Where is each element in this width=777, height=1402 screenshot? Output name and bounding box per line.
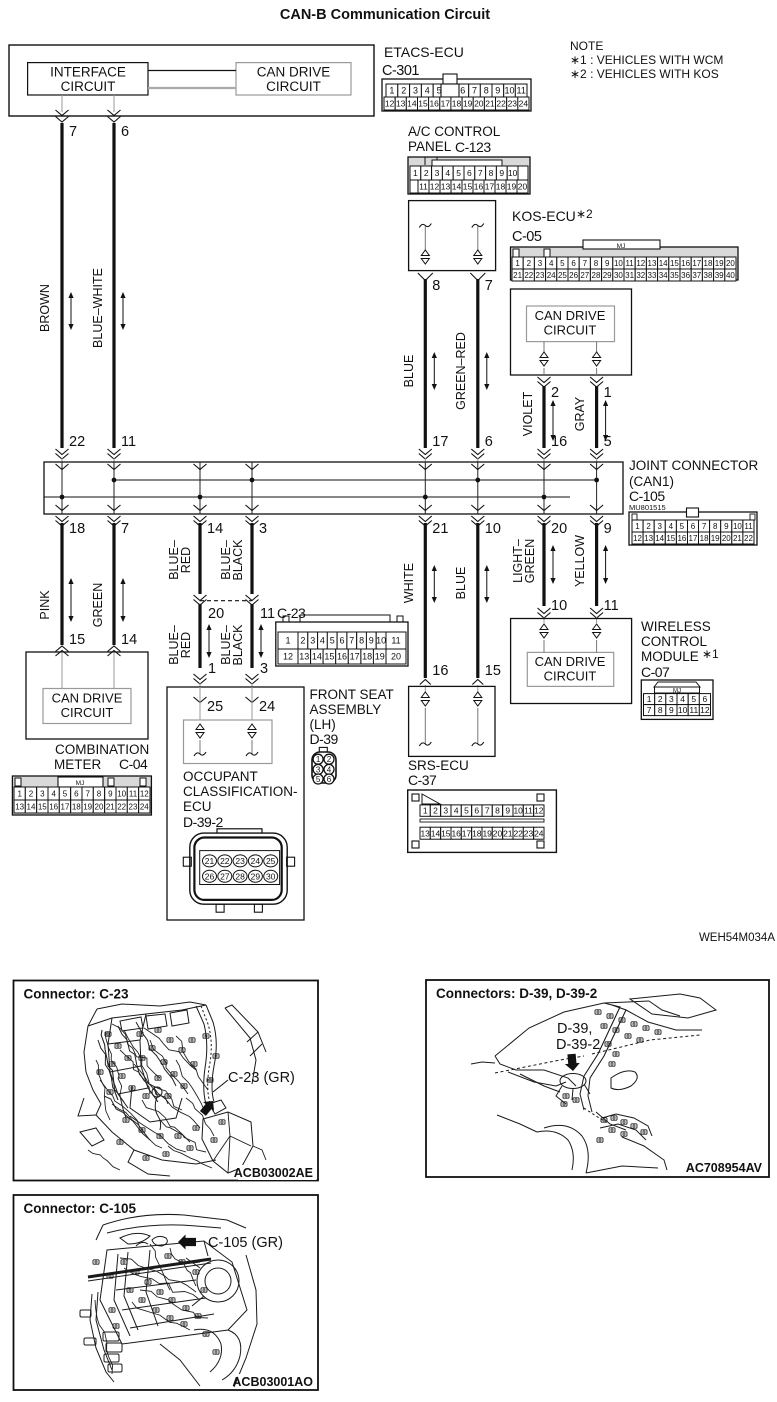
svg-text:8: 8 [359, 636, 364, 646]
svg-text:6: 6 [74, 789, 79, 798]
svg-text:3: 3 [657, 522, 662, 531]
svg-text:(LH): (LH) [310, 717, 336, 732]
connector D-39 [319, 747, 327, 752]
wire BROWN pin 7 to joint connector pin 22 [61, 95, 63, 112]
svg-text:BLUE: BLUE [454, 567, 468, 600]
svg-text:8: 8 [658, 705, 663, 715]
svg-text:C-105 (GR): C-105 (GR) [208, 1235, 283, 1251]
joint connector (CAN1) C-105 box [44, 462, 623, 514]
svg-text:1: 1 [413, 168, 418, 178]
svg-text:6: 6 [121, 124, 129, 140]
svg-text:22: 22 [524, 271, 533, 280]
svg-text:C-23: C-23 [277, 605, 306, 621]
svg-text:13: 13 [396, 99, 406, 109]
terminator in occupant ECU box at x=252 [248, 724, 256, 730]
D-39 pin 5 [313, 774, 323, 784]
joint connector internal wire at x=252 [251, 462, 253, 480]
svg-text:RED: RED [179, 632, 193, 658]
SRS-ECU block [409, 686, 495, 756]
svg-text:2: 2 [424, 168, 429, 178]
svg-text:20: 20 [722, 534, 731, 543]
svg-text:17: 17 [432, 434, 448, 450]
svg-text:16: 16 [49, 802, 58, 811]
svg-text:13: 13 [648, 259, 657, 268]
svg-text:7: 7 [472, 86, 477, 96]
svg-text:METER: METER [54, 757, 102, 772]
pin 27 circle [218, 870, 232, 882]
svg-text:26: 26 [205, 872, 215, 882]
svg-text:∗1: ∗1 [702, 647, 719, 661]
svg-text:5: 5 [691, 694, 696, 704]
svg-text:12: 12 [140, 789, 149, 798]
svg-text:23: 23 [129, 802, 138, 811]
svg-text:20: 20 [726, 259, 735, 268]
svg-text:14: 14 [431, 828, 441, 838]
svg-text:RED: RED [179, 547, 193, 573]
svg-text:ETACS-ECU: ETACS-ECU [384, 44, 464, 60]
svg-text:23: 23 [524, 828, 534, 838]
svg-text:24: 24 [259, 699, 275, 715]
svg-text:17: 17 [692, 259, 701, 268]
svg-text:KOS-ECU: KOS-ECU [512, 208, 576, 224]
svg-text:3: 3 [310, 636, 315, 646]
svg-text:18: 18 [452, 99, 462, 109]
svg-text:11: 11 [129, 789, 138, 798]
svg-text:20: 20 [208, 606, 224, 622]
pin 24 circle [248, 855, 262, 867]
D-39 pin 6 [324, 774, 334, 784]
svg-text:36: 36 [681, 271, 690, 280]
svg-text:2: 2 [327, 755, 332, 764]
svg-text:11: 11 [625, 259, 634, 268]
svg-text:11: 11 [260, 606, 275, 622]
pin 25 circle [264, 855, 278, 867]
svg-text:22: 22 [220, 856, 230, 866]
pin 23 circle [233, 855, 247, 867]
svg-text:BLACK: BLACK [231, 539, 245, 581]
svg-text:3: 3 [40, 789, 45, 798]
pin 29 circle [248, 870, 262, 882]
svg-text:1: 1 [423, 806, 428, 816]
svg-text:16: 16 [451, 828, 461, 838]
svg-text:16: 16 [432, 663, 448, 679]
connector C-23 [276, 622, 408, 666]
svg-text:24: 24 [547, 271, 556, 280]
svg-text:CONTROL: CONTROL [641, 634, 707, 649]
svg-text:15: 15 [463, 182, 473, 192]
svg-text:5: 5 [680, 522, 685, 531]
svg-text:22: 22 [513, 828, 523, 838]
wire VIOLET pin 2 to joint connector pin 16 [538, 377, 551, 383]
svg-text:∗2: ∗2 [576, 207, 593, 221]
svg-text:14: 14 [452, 182, 462, 192]
svg-text:39: 39 [715, 271, 724, 280]
svg-text:15: 15 [666, 534, 675, 543]
svg-text:11: 11 [121, 434, 136, 450]
svg-text:15: 15 [69, 632, 85, 648]
svg-text:∗2 : VEHICLES WITH KOS: ∗2 : VEHICLES WITH KOS [570, 67, 719, 81]
svg-text:22: 22 [69, 434, 85, 450]
terminator in WCM at x=544 [540, 624, 548, 630]
svg-text:22: 22 [744, 534, 753, 543]
svg-text:32: 32 [636, 271, 645, 280]
svg-text:4: 4 [669, 522, 674, 531]
svg-text:14: 14 [27, 802, 36, 811]
svg-text:Connector: C-105: Connector: C-105 [24, 1201, 137, 1216]
svg-text:13: 13 [420, 828, 430, 838]
CAN bus lower line [44, 496, 570, 498]
svg-text:(CAN1): (CAN1) [629, 474, 674, 489]
svg-text:21: 21 [205, 856, 215, 866]
svg-text:7: 7 [647, 705, 652, 715]
svg-text:18: 18 [700, 534, 709, 543]
svg-text:14: 14 [207, 521, 223, 537]
svg-text:JOINT CONNECTOR: JOINT CONNECTOR [629, 458, 759, 473]
svg-text:7: 7 [485, 278, 493, 294]
svg-text:17: 17 [61, 802, 70, 811]
svg-text:16: 16 [429, 99, 439, 109]
svg-text:5: 5 [456, 168, 461, 178]
svg-text:22: 22 [117, 802, 126, 811]
svg-text:38: 38 [704, 271, 713, 280]
terminator in WCM at x=596.6 [593, 624, 601, 630]
svg-text:10: 10 [508, 168, 518, 178]
svg-text:4: 4 [425, 86, 430, 96]
svg-text:3: 3 [413, 86, 418, 96]
svg-text:6: 6 [339, 636, 344, 646]
svg-text:6: 6 [467, 168, 472, 178]
wire BLUE&#8211;RED joint connector pin 14 via C-23 [194, 516, 207, 522]
svg-text:3: 3 [669, 694, 674, 704]
svg-text:30: 30 [614, 271, 623, 280]
svg-text:18: 18 [69, 521, 85, 537]
svg-text:11: 11 [517, 86, 526, 96]
svg-text:CLASSIFICATION-: CLASSIFICATION- [183, 784, 298, 799]
svg-text:40: 40 [726, 271, 735, 280]
terminator triangles below CAN DRIVE at x=596.6 [596, 342, 598, 352]
svg-text:12: 12 [633, 534, 642, 543]
svg-text:ECU: ECU [183, 799, 212, 814]
svg-text:1: 1 [647, 694, 652, 704]
svg-text:10: 10 [551, 598, 567, 614]
svg-text:8: 8 [594, 259, 599, 268]
svg-text:18: 18 [472, 828, 482, 838]
wire GREEN joint connector pin 7 to combination meter pin 14 [108, 516, 121, 522]
svg-text:Connectors: D-39, D-39-2: Connectors: D-39, D-39-2 [436, 986, 597, 1001]
svg-text:26: 26 [569, 271, 578, 280]
terminator in occupant ECU box at x=200 [196, 724, 204, 730]
svg-text:10: 10 [504, 86, 514, 96]
svg-text:14: 14 [121, 632, 137, 648]
svg-text:D-39: D-39 [310, 731, 339, 747]
connector C-23 target blob [209, 1100, 226, 1114]
wire LIGHT&#8211;GREEN joint connector pin 20 to wireless control module pin 10 [538, 516, 551, 522]
svg-text:1: 1 [285, 636, 290, 646]
D-39 pin 2 [324, 754, 334, 764]
svg-text:2: 2 [401, 86, 406, 96]
svg-text:15: 15 [441, 828, 451, 838]
svg-text:WIRELESS: WIRELESS [641, 619, 711, 634]
svg-text:3: 3 [435, 168, 440, 178]
terminator in SRS-ECU at x=477.8 [474, 692, 482, 698]
svg-text:5: 5 [560, 259, 565, 268]
svg-text:15: 15 [485, 663, 501, 679]
svg-text:1: 1 [389, 86, 394, 96]
svg-text:21: 21 [513, 271, 522, 280]
svg-text:21: 21 [432, 521, 448, 537]
svg-text:27: 27 [220, 872, 230, 882]
svg-text:16: 16 [474, 182, 484, 192]
svg-text:CIRCUIT: CIRCUIT [61, 79, 116, 94]
svg-text:11: 11 [524, 806, 533, 816]
svg-text:4: 4 [327, 765, 332, 774]
photo box: Connector C-105 [14, 1195, 319, 1390]
connector C-301 [382, 79, 531, 111]
illustration: car body upper side [495, 1001, 649, 1056]
svg-text:SRS-ECU: SRS-ECU [408, 758, 469, 773]
wire BLUE pin 8 to joint connector pin 17 [418, 273, 433, 281]
svg-text:CIRCUIT: CIRCUIT [61, 705, 114, 720]
svg-text:BLUE–WHITE: BLUE–WHITE [91, 268, 105, 348]
joint connector internal wire at x=200 [199, 462, 201, 497]
svg-text:11: 11 [604, 598, 619, 614]
svg-text:19: 19 [463, 99, 473, 109]
D-39 pin 3 [313, 764, 323, 774]
svg-text:D-39,: D-39, [557, 1021, 592, 1037]
svg-text:3: 3 [316, 765, 321, 774]
svg-text:14: 14 [659, 259, 668, 268]
wire: interface to can drive (lower, gray) [148, 87, 236, 89]
svg-text:6: 6 [327, 775, 332, 784]
svg-text:4: 4 [680, 694, 685, 704]
svg-text:INTERFACE: INTERFACE [50, 65, 126, 80]
svg-text:17: 17 [441, 99, 451, 109]
svg-text:A/C CONTROL: A/C CONTROL [408, 124, 501, 139]
svg-text:13: 13 [644, 534, 653, 543]
photo box: Connectors D-39, D-39-2 [426, 980, 769, 1177]
svg-text:7: 7 [478, 168, 483, 178]
svg-text:MU801515: MU801515 [629, 503, 666, 512]
svg-text:12: 12 [430, 182, 440, 192]
svg-text:19: 19 [507, 182, 517, 192]
svg-text:6: 6 [691, 522, 696, 531]
svg-text:29: 29 [603, 271, 612, 280]
svg-text:3: 3 [260, 661, 268, 677]
svg-text:FRONT SEAT: FRONT SEAT [310, 687, 394, 702]
svg-text:2: 2 [646, 522, 651, 531]
svg-text:6: 6 [485, 434, 493, 450]
svg-text:10: 10 [376, 636, 386, 646]
svg-text:ACB03001AO: ACB03001AO [232, 1375, 313, 1389]
black arrow pointing left to C-105 [178, 1235, 196, 1250]
svg-text:2: 2 [300, 636, 305, 646]
svg-text:4: 4 [549, 259, 554, 268]
svg-text:CAN DRIVE: CAN DRIVE [535, 308, 606, 323]
svg-text:24: 24 [251, 856, 261, 866]
svg-text:ACB03002AE: ACB03002AE [234, 1166, 313, 1180]
svg-text:3: 3 [538, 259, 543, 268]
terminator in SRS-ECU at x=425.3 [421, 692, 429, 698]
svg-text:1: 1 [208, 661, 216, 677]
svg-text:35: 35 [670, 271, 679, 280]
svg-text:10: 10 [485, 521, 501, 537]
svg-text:11: 11 [689, 705, 698, 715]
svg-text:17: 17 [350, 652, 360, 662]
svg-text:MJ: MJ [76, 780, 85, 787]
svg-text:BROWN: BROWN [38, 284, 52, 332]
svg-text:33: 33 [648, 271, 657, 280]
svg-text:25: 25 [207, 699, 223, 715]
svg-text:15: 15 [418, 99, 428, 109]
joint connector internal wire at x=114 [113, 462, 115, 480]
pin 28 circle [233, 870, 247, 882]
svg-text:9: 9 [505, 806, 510, 816]
svg-text:7: 7 [583, 259, 588, 268]
wire GRAY pin 1 to joint connector pin 5 [590, 377, 603, 383]
svg-text:10: 10 [678, 705, 688, 715]
svg-text:21: 21 [733, 534, 742, 543]
wire PINK joint connector pin 18 to combination meter pin 15 [56, 516, 69, 522]
svg-text:7: 7 [485, 806, 490, 816]
svg-text:COMBINATION: COMBINATION [55, 742, 149, 757]
svg-text:19: 19 [482, 828, 492, 838]
connector C-04 [12, 776, 151, 815]
svg-text:13: 13 [441, 182, 451, 192]
svg-text:20: 20 [518, 182, 528, 192]
svg-text:PANEL: PANEL [408, 139, 452, 154]
svg-text:8: 8 [489, 168, 494, 178]
svg-text:9: 9 [604, 521, 612, 537]
svg-text:1: 1 [17, 789, 22, 798]
svg-text:21: 21 [485, 99, 495, 109]
svg-text:19: 19 [83, 802, 92, 811]
illustration: dash reinforcement line art [103, 1214, 246, 1228]
joint connector internal wire at x=425.3 [424, 462, 426, 497]
svg-text:7: 7 [349, 636, 354, 646]
svg-text:CAN DRIVE: CAN DRIVE [257, 65, 331, 80]
svg-text:WEH54M034A: WEH54M034A [699, 932, 775, 944]
svg-text:CIRCUIT: CIRCUIT [544, 669, 597, 684]
svg-text:10: 10 [513, 806, 523, 816]
D-39 pin 4 [324, 764, 334, 774]
svg-text:1: 1 [604, 385, 612, 401]
occupant classification terminator box [184, 720, 273, 764]
svg-text:6: 6 [703, 694, 708, 704]
svg-text:16: 16 [677, 534, 686, 543]
svg-text:25: 25 [558, 271, 567, 280]
black arrow down to connectors [564, 1053, 580, 1071]
svg-text:12: 12 [385, 99, 395, 109]
svg-text:18: 18 [496, 182, 506, 192]
svg-text:CAN-B Communication Circuit: CAN-B Communication Circuit [280, 7, 490, 23]
svg-text:24: 24 [519, 99, 529, 109]
svg-text:15: 15 [670, 259, 679, 268]
svg-text:19: 19 [375, 652, 385, 662]
svg-text:21: 21 [503, 828, 513, 838]
svg-text:6: 6 [460, 86, 465, 96]
photo box: Connector C-23 [14, 981, 319, 1181]
svg-text:10: 10 [614, 259, 623, 268]
connector C-123 [408, 157, 530, 194]
svg-text:31: 31 [625, 271, 634, 280]
svg-text:9: 9 [669, 705, 674, 715]
svg-text:9: 9 [605, 259, 610, 268]
svg-text:CAN DRIVE: CAN DRIVE [535, 654, 606, 669]
wire WHITE joint connector pin 21 to SRS-ECU pin 16 [419, 516, 432, 522]
svg-text:ASSEMBLY: ASSEMBLY [310, 702, 382, 717]
terminator inside KOS-ECU at x=477.8 [472, 224, 484, 228]
svg-text:C-23 (GR): C-23 (GR) [228, 1070, 295, 1086]
wireless control module block [511, 619, 632, 704]
wire BLUE joint connector pin 10 to SRS-ECU pin 15 [471, 516, 484, 522]
svg-text:17: 17 [462, 828, 472, 838]
connector C-105 [629, 512, 757, 545]
svg-text:30: 30 [266, 872, 276, 882]
wire BLUE&#8211;BLACK joint connector pin 3 via C-23 [246, 516, 259, 522]
connector C-07 [641, 680, 713, 719]
svg-text:GREEN–RED: GREEN–RED [454, 332, 468, 410]
svg-text:11: 11 [391, 636, 400, 646]
svg-text:5: 5 [316, 775, 321, 784]
svg-text:18: 18 [72, 802, 81, 811]
svg-text:BLUE: BLUE [402, 355, 416, 388]
ETACS-ECU block outline [9, 45, 374, 116]
svg-text:18: 18 [704, 259, 713, 268]
svg-text:23: 23 [536, 271, 545, 280]
svg-text:12: 12 [636, 259, 645, 268]
terminator inside KOS-ECU at x=425.3 [419, 224, 431, 228]
svg-text:10: 10 [117, 789, 126, 798]
svg-text:GRAY: GRAY [573, 396, 587, 431]
svg-text:D-39-2: D-39-2 [183, 814, 224, 830]
joint connector internal wire at x=544 [543, 462, 545, 497]
svg-text:C-37: C-37 [408, 772, 437, 788]
svg-text:11: 11 [419, 182, 428, 192]
svg-text:5: 5 [464, 806, 469, 816]
svg-text:10: 10 [733, 522, 742, 531]
svg-text:4: 4 [320, 636, 325, 646]
svg-text:8: 8 [484, 86, 489, 96]
joint connector internal wire at x=596.6 [596, 462, 598, 480]
svg-text:24: 24 [534, 828, 544, 838]
svg-text:2: 2 [433, 806, 438, 816]
svg-text:13: 13 [15, 802, 24, 811]
svg-text:14: 14 [312, 652, 322, 662]
svg-text:D-39-2: D-39-2 [556, 1037, 600, 1053]
svg-text:34: 34 [659, 271, 668, 280]
svg-text:4: 4 [51, 789, 56, 798]
svg-text:∗1 : VEHICLES WITH WCM: ∗1 : VEHICLES WITH WCM [570, 53, 723, 67]
front seat assembly block [167, 687, 304, 920]
svg-text:19: 19 [715, 259, 724, 268]
svg-text:20: 20 [391, 652, 401, 662]
interface circuit box [28, 63, 148, 95]
svg-text:1: 1 [515, 259, 520, 268]
svg-text:16: 16 [337, 652, 347, 662]
KOS can drive circuit block [511, 289, 632, 375]
svg-text:VIOLET: VIOLET [521, 391, 535, 436]
svg-text:4: 4 [445, 168, 450, 178]
CAN bus upper line [114, 479, 597, 481]
C-23 dashed junction line [200, 600, 252, 602]
svg-text:9: 9 [495, 86, 500, 96]
svg-text:21: 21 [106, 802, 115, 811]
svg-text:8: 8 [713, 522, 718, 531]
svg-text:14: 14 [407, 99, 417, 109]
svg-text:17: 17 [689, 534, 698, 543]
svg-text:C-105: C-105 [629, 488, 665, 504]
svg-text:14: 14 [655, 534, 664, 543]
